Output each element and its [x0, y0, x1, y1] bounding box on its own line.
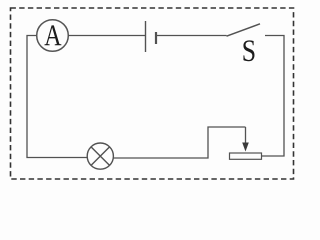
- battery cell: short plate (negative): [155, 32, 157, 44]
- wire: switch right contact, down right side, to rheostat right terminal: [262, 36, 285, 157]
- dashed border frame: [11, 8, 294, 179]
- wire: wiper feed, step down, to lamp right lead: [113, 127, 245, 158]
- rheostat R1 body: [230, 153, 262, 159]
- wire: battery to switch: [156, 35, 227, 37]
- lamp L1 circle: [87, 143, 113, 169]
- wire: ammeter to battery: [68, 35, 145, 37]
- switch label S: [243, 40, 254, 61]
- rheostat wiper arrow: [245, 127, 247, 144]
- switch S blade (open): [227, 24, 261, 36]
- ammeter U1 circle: [37, 20, 69, 52]
- wire: ammeter left lead, down left side to bottom-left corner, to lamp: [27, 36, 87, 158]
- ammeter label A: [44, 25, 61, 45]
- battery cell: long plate (positive): [145, 21, 147, 52]
- lamp X cross: [91, 147, 110, 166]
